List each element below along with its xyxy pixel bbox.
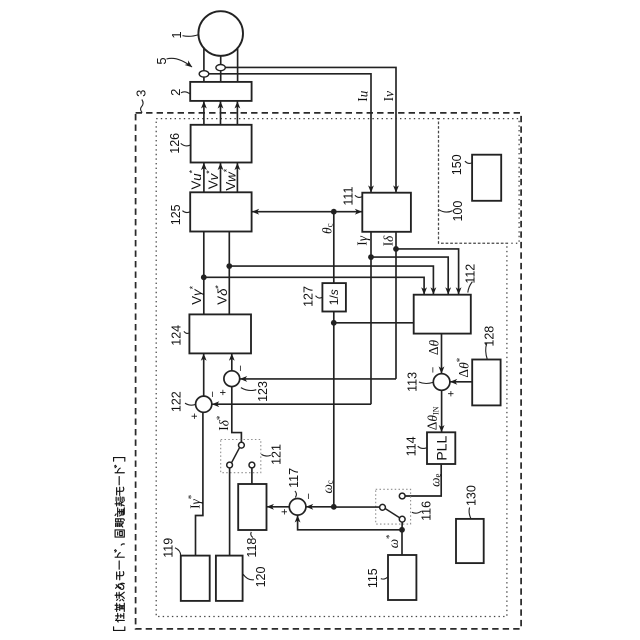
switch 121 contact top <box>239 442 245 448</box>
wire to 112 left <box>334 322 414 324</box>
wire V-delta* 124 to 125 <box>228 232 230 315</box>
svg-text:116: 116 <box>420 501 434 521</box>
wire I-delta down <box>395 232 397 379</box>
svg-text:126: 126 <box>168 133 182 154</box>
wire I-delta* switch to 123 <box>232 387 242 443</box>
wire U phase lower <box>203 77 205 82</box>
svg-text:150: 150 <box>450 154 464 175</box>
leader for label 119 <box>175 548 181 556</box>
wire V-gamma* 124 to 125 <box>203 232 205 315</box>
wire U phase <box>203 48 205 71</box>
svg-text:Iv: Iv <box>381 91 396 101</box>
switch 121 enclosure <box>221 440 261 473</box>
arrow Vw* 125 to 126 <box>236 163 238 192</box>
wire theta-c to 111 <box>334 211 362 213</box>
wire omega-e <box>405 464 441 496</box>
wire theta-c junction to 1/s <box>333 212 335 283</box>
node V-delta* branch <box>226 263 232 269</box>
switch 121 contact bottom-left <box>227 462 233 468</box>
wire I-gamma* 119 to 122 <box>196 412 203 555</box>
leader for label 112 <box>468 282 473 293</box>
svg-text:1/s: 1/s <box>327 289 341 305</box>
wire 113 to PLL <box>441 390 443 432</box>
wire Iu (sensor to 111) <box>209 74 371 193</box>
box 119 <box>181 556 210 601</box>
svg-text:Δθ: Δθ <box>426 339 441 355</box>
leader for label 121 <box>261 454 270 456</box>
svg-text:121: 121 <box>270 444 284 465</box>
node omega-c junction <box>331 504 337 510</box>
leader for label 123 <box>241 388 256 391</box>
wire I-gamma to 122 <box>212 403 371 405</box>
svg-text:100: 100 <box>451 201 465 222</box>
box 125 <box>190 192 251 231</box>
svg-text:120: 120 <box>254 567 268 588</box>
dashed boundary 3 <box>136 113 521 629</box>
summing junction 123 <box>224 371 240 387</box>
wire theta-c to 125 <box>252 211 334 213</box>
svg-text:125: 125 <box>169 204 183 225</box>
svg-text:128: 128 <box>482 326 496 347</box>
leader for label 115 <box>381 577 388 579</box>
svg-text:PLL: PLL <box>433 436 449 461</box>
wire V-gamma* feedback to 112 <box>204 277 424 294</box>
box 120 <box>216 556 243 601</box>
arrow 123 to 124 <box>231 354 233 371</box>
box 150 <box>472 155 501 201</box>
leader for label 126 <box>181 143 191 146</box>
leader for label 2 <box>181 92 190 94</box>
inverter box 2 <box>190 82 251 101</box>
leader for label 118 <box>251 532 253 538</box>
box 128 <box>472 360 500 406</box>
svg-text:111: 111 <box>342 187 356 206</box>
box 111 <box>362 193 411 232</box>
svg-text:−: − <box>235 365 247 371</box>
dotted controller boundary <box>156 119 507 617</box>
leader for label 125 <box>182 211 190 213</box>
leader for label 100 <box>439 210 453 212</box>
wire I-delta feedback to 112 <box>396 249 459 295</box>
leader for label 124 <box>184 331 189 333</box>
svg-text:−: − <box>207 391 219 397</box>
box 126 <box>191 125 252 163</box>
svg-text:130: 130 <box>465 485 479 506</box>
svg-text:112: 112 <box>464 264 478 284</box>
wire V-delta* feedback to 112 <box>229 266 433 294</box>
arrow Vu* 125 to 126 <box>203 163 205 192</box>
wire 121 to box 118 <box>251 468 253 484</box>
wire I-gamma feedback to 112 <box>371 257 448 294</box>
arrow 126 to 2 (b) <box>220 101 222 124</box>
node I-gamma branch <box>368 254 374 260</box>
arrow 126 to 2 (c) <box>236 101 238 124</box>
node theta-c junction <box>331 209 337 215</box>
summing junction 122 <box>196 396 212 412</box>
wire 116 contact to omega* node <box>401 522 403 530</box>
svg-text:123: 123 <box>256 381 270 402</box>
arrow leader for label 5 <box>167 58 193 67</box>
leader for label 3 <box>141 100 144 113</box>
svg-text:117: 117 <box>287 468 301 488</box>
svg-text:127: 127 <box>302 286 316 307</box>
box 124 <box>189 314 251 353</box>
svg-text:3: 3 <box>134 90 149 97</box>
node 1/s output branch <box>331 320 337 326</box>
svg-text:113: 113 <box>406 372 420 392</box>
leader for label 114 <box>418 446 427 448</box>
wire omega-c to 117 <box>306 506 334 508</box>
wire V phase lower <box>220 71 222 83</box>
wire 121 to box 120 <box>229 468 231 556</box>
wire 1/s to omega-c line <box>333 312 335 507</box>
box 130 <box>456 519 484 563</box>
svg-text:124: 124 <box>170 325 184 346</box>
svg-text:+: + <box>189 413 201 419</box>
svg-text:118: 118 <box>245 538 259 558</box>
leader for label 116 <box>412 511 421 513</box>
box 115 <box>388 555 416 600</box>
box 112 <box>414 295 471 334</box>
wire V phase <box>220 56 222 65</box>
wire 117 to 118 <box>267 506 289 508</box>
leader for label 120 <box>243 574 254 580</box>
svg-text:−: − <box>303 493 315 499</box>
wire omega* to 117 <box>298 515 402 529</box>
caption [positioning mode / synchronous operation mode] (vector strokes) <box>114 458 125 631</box>
leader for label 150 <box>465 161 472 163</box>
switch 116 contact top-right <box>399 493 405 499</box>
switch 116 enclosure <box>376 489 411 524</box>
wire delta-theta 112 to 113 <box>441 334 443 374</box>
wire omega* node to 115 <box>401 530 403 555</box>
switch 116 contact left <box>380 504 386 510</box>
leader for label 130 <box>469 508 471 519</box>
box 118 <box>238 484 266 530</box>
arrow Vv* 125 to 126 <box>220 163 222 192</box>
wire W phase <box>237 48 239 83</box>
svg-text:+: + <box>279 509 291 515</box>
summing junction 113 <box>433 374 450 391</box>
svg-text:−: − <box>427 367 439 373</box>
motor M1 (circle) <box>198 11 243 56</box>
svg-text:Iu: Iu <box>355 90 370 101</box>
leader for label 111 <box>355 195 362 197</box>
node omega* junction <box>399 527 405 533</box>
svg-text:114: 114 <box>405 436 419 456</box>
current sensor (U phase) <box>199 71 209 77</box>
svg-text:2: 2 <box>168 89 183 96</box>
box 127 <box>322 283 346 311</box>
switch 121 blade <box>232 448 240 463</box>
summing junction 117 <box>289 499 306 516</box>
arrow 126 to 2 (a) <box>203 101 205 124</box>
arrow 122 to 124 <box>203 354 205 396</box>
svg-text:Iγ: Iγ <box>355 235 370 245</box>
switch 116 blade <box>385 509 400 519</box>
wire omega-c to switch 116 <box>334 506 380 508</box>
wire I-gamma down <box>370 232 372 404</box>
node I-delta branch <box>393 246 399 252</box>
leader for label 117 <box>295 491 297 498</box>
svg-text:115: 115 <box>366 568 380 588</box>
svg-text:+: + <box>446 390 458 396</box>
wire I-delta to 123 <box>240 378 396 380</box>
dotted box (150 region) <box>439 119 520 244</box>
wire Iv (sensor to 111) <box>225 67 396 192</box>
svg-text:119: 119 <box>162 538 176 558</box>
svg-text:Iδ: Iδ <box>381 235 396 246</box>
box 114 PLL <box>427 432 455 464</box>
svg-text:1: 1 <box>169 31 184 38</box>
switch 121 contact bottom-right <box>249 462 255 468</box>
current sensor (V phase) <box>216 65 225 71</box>
switch 116 contact bottom-right <box>399 516 405 522</box>
leader for label 122 <box>185 403 196 405</box>
wire delta-theta* 128 to 113 <box>450 381 472 383</box>
node V-gamma* branch <box>201 274 207 280</box>
svg-text:122: 122 <box>170 391 184 412</box>
leader for label 1 <box>183 35 199 37</box>
leader for label 113 <box>419 382 433 384</box>
leader for label 128 <box>486 343 488 359</box>
leader for label 127 <box>316 296 323 298</box>
